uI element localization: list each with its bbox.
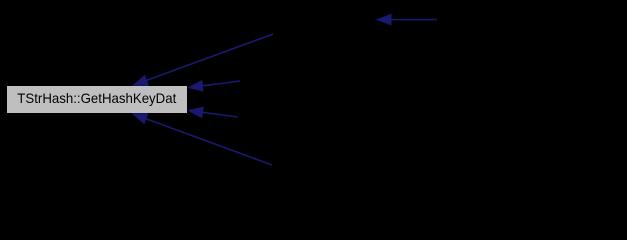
node TStrHash::GetHashKeyDat — [7, 86, 188, 114]
svg-text:TStrHash::GetHashKeyDat: TStrHash::GetHashKeyDat — [17, 90, 176, 106]
wire edge A (top right horizontal) — [377, 14, 437, 24]
wire edge C (upper short into box right edge) — [189, 81, 240, 91]
wire edge D (lower short into box right edge) — [189, 107, 238, 117]
wire edge B (upper diagonal into box top) — [133, 34, 273, 85]
wire edge E (lower diagonal into box bottom) — [133, 114, 272, 165]
